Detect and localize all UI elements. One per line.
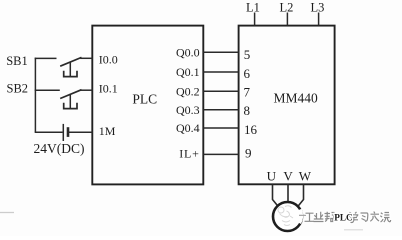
battery short plate — [67, 127, 70, 137]
wire V to motor — [287, 185, 289, 203]
svg-text:L2: L2 — [280, 1, 294, 15]
watermark white glow notch on motor right — [299, 210, 301, 223]
wire SB1 row right — [80, 57, 93, 59]
svg-text:Q0.0: Q0.0 — [176, 45, 200, 59]
PLC box U1 — [92, 26, 203, 185]
svg-text:16: 16 — [244, 122, 258, 137]
wire Q0.1 to 6 — [203, 71, 238, 73]
wire L2 drop — [286, 13, 288, 26]
svg-text:SB1: SB1 — [6, 54, 28, 68]
wire L1 drop — [254, 13, 256, 26]
wire battery row right to 1M — [69, 131, 93, 133]
switch SB2 actuator bracket — [64, 103, 77, 109]
watermark text: 工业帮PLC学习交流 (hand drawn) — [305, 212, 391, 223]
svg-text:SB2: SB2 — [7, 82, 29, 96]
svg-text:PLC: PLC — [132, 91, 157, 106]
svg-text:5: 5 — [244, 47, 251, 62]
svg-text:MM440: MM440 — [273, 91, 318, 106]
svg-text:L1: L1 — [246, 1, 260, 15]
wire SB1 row left — [35, 57, 57, 59]
svg-text:U: U — [267, 168, 277, 183]
switch SB1 actuator stem — [69, 62, 71, 76]
switch SB1 actuator bracket — [64, 71, 77, 77]
wire U to motor — [273, 185, 278, 207]
svg-text:8: 8 — [244, 103, 251, 118]
svg-text:IL+: IL+ — [179, 146, 200, 160]
svg-text:6: 6 — [244, 66, 251, 81]
watermark logo dash — [299, 214, 306, 216]
svg-text:9: 9 — [245, 145, 252, 160]
stray mark bottom left — [0, 212, 14, 214]
svg-text:PLC: PLC — [334, 213, 352, 223]
battery long plate — [62, 124, 64, 141]
wire battery row left — [35, 131, 63, 133]
svg-text:7: 7 — [244, 84, 251, 99]
wire Q0.0 to 5 — [203, 51, 238, 53]
svg-text:Q0.2: Q0.2 — [176, 84, 200, 98]
svg-text:24V(DC): 24V(DC) — [34, 141, 85, 156]
wire Q0.3 to 8 — [203, 109, 238, 111]
svg-text:Q0.4: Q0.4 — [176, 121, 200, 135]
switch SB2 actuator stem — [69, 94, 71, 108]
motor M1 circle — [273, 202, 302, 231]
wire L3 drop — [318, 13, 320, 26]
switch SB2 contact blade — [60, 90, 81, 99]
svg-text:I0.1: I0.1 — [99, 81, 118, 95]
wire left bus vertical — [34, 58, 36, 133]
svg-text:W: W — [299, 168, 312, 183]
stray underline fragment below watermark — [344, 229, 363, 231]
svg-text:V: V — [283, 168, 293, 183]
wire SB2 row right — [80, 89, 93, 91]
svg-text:Q0.1: Q0.1 — [176, 65, 200, 79]
wire IL+ to 9 — [203, 153, 238, 155]
wire Q0.4 to 16 — [203, 127, 238, 129]
wire SB2 row left — [35, 89, 60, 91]
svg-text:Q0.3: Q0.3 — [176, 103, 200, 117]
switch SB1 contact blade — [60, 57, 81, 66]
svg-text:I0.0: I0.0 — [99, 52, 118, 66]
watermark mascot squiggles inside motor — [278, 206, 293, 226]
wire Q0.2 to 7 — [203, 90, 238, 92]
svg-text:L3: L3 — [311, 1, 325, 15]
MM440 box U2 — [239, 26, 335, 185]
svg-text:1M: 1M — [99, 124, 116, 138]
wire W to motor — [298, 185, 303, 207]
